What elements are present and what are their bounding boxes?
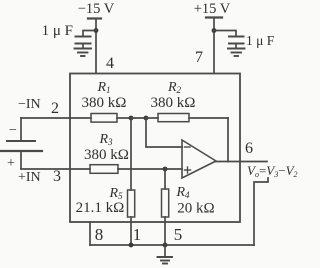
ground (main) (158, 257, 173, 264)
wire rail up to output return (254, 178, 268, 245)
wire -IN down to battery (20, 118, 22, 141)
svg-text:−IN: −IN (18, 97, 41, 112)
wire feedback down to output (227, 118, 229, 162)
resistor R4 body (162, 189, 169, 217)
svg-text:6: 6 (245, 140, 253, 157)
resistor R3 body (90, 165, 118, 174)
resistor R2 lead left (146, 117, 158, 119)
IC box U1 outline (70, 74, 240, 223)
resistor R1 lead left (70, 117, 91, 119)
svg-text:1 μ F: 1 μ F (246, 33, 275, 48)
svg-text:2: 2 (51, 100, 59, 117)
node pin 1 on rail (129, 243, 134, 248)
node C (R3/R4 junction) (163, 167, 168, 172)
wire R2 to feedback corner (189, 117, 228, 119)
node B (inverting input node) (144, 116, 149, 121)
svg-text:Vo=V3−V2: Vo=V3−V2 (247, 163, 298, 179)
resistor R1 body (91, 114, 117, 123)
svg-text:5: 5 (174, 225, 183, 244)
svg-text:7: 7 (195, 49, 203, 66)
svg-text:8: 8 (95, 225, 104, 244)
svg-text:1: 1 (133, 225, 142, 244)
capacitor C2 (1 uF) plates (229, 37, 244, 44)
wire battery to +IN (20, 151, 22, 169)
wire C1 to ground (82, 44, 84, 49)
wire C1 lead (83, 31, 96, 37)
battery source plate (positive, bottom) (1, 150, 42, 152)
op-amp plus sign (185, 169, 191, 171)
wire -15V to pin 4 (95, 19, 97, 74)
resistor R2 body (158, 114, 189, 122)
ground (C1) (75, 49, 92, 57)
node: -15V / C1 junction (94, 28, 99, 33)
svg-text:+IN: +IN (18, 170, 41, 185)
svg-text:380 kΩ: 380 kΩ (151, 95, 196, 111)
ground (C2) (228, 49, 245, 57)
wire -IN input (pin 2) (21, 117, 70, 119)
wire +IN input (pin 3) (21, 168, 70, 170)
svg-text:20 kΩ: 20 kΩ (177, 201, 214, 217)
svg-text:R2: R2 (167, 80, 182, 95)
wire node A to node B (131, 117, 146, 119)
capacitor C1 (1 uF) plates (76, 37, 91, 44)
+15V supply terminal bar (206, 16, 222, 18)
svg-text:+15 V: +15 V (194, 1, 231, 17)
wire node A down to R5 (130, 118, 132, 190)
svg-text:1 μ F: 1 μ F (42, 23, 73, 39)
svg-text:R5: R5 (108, 186, 123, 201)
op-amp U1 triangle (182, 140, 216, 178)
op-amp minus sign (185, 146, 191, 148)
wire R5 to pin 1 (130, 217, 132, 245)
node: +15V / C2 junction (212, 28, 217, 33)
svg-text:380 kΩ: 380 kΩ (84, 147, 129, 163)
node pin 5 on rail (163, 243, 168, 248)
-15V supply terminal bar (88, 17, 101, 19)
svg-text:R3: R3 (98, 132, 113, 147)
svg-text:−15 V: −15 V (78, 1, 115, 17)
wire R3 to op-amp noninverting input (118, 168, 182, 170)
node A (R1/R5 junction) (129, 116, 134, 121)
svg-text:380 kΩ: 380 kΩ (82, 95, 127, 111)
wire C2 lead (214, 31, 236, 37)
wire C2 to ground (235, 44, 237, 49)
wire pin 8 down (89, 222, 91, 245)
svg-text:−: − (9, 123, 17, 138)
resistor R1 lead right (117, 117, 131, 119)
svg-text:R1: R1 (96, 80, 110, 95)
wire inverting input (node B to op-amp) (146, 118, 182, 147)
wire +15V to pin 7 (213, 18, 215, 74)
resistor R3 lead left (70, 168, 90, 170)
battery source plate (negative, top) (7, 140, 35, 142)
wire R4 to pin 5 (164, 217, 166, 245)
svg-text:21.1 kΩ: 21.1 kΩ (76, 200, 125, 216)
svg-text:R4: R4 (175, 185, 190, 200)
wire ground stub (164, 245, 166, 257)
wire node C down to R4 (164, 169, 166, 189)
resistor R5 body (128, 190, 135, 217)
svg-text:3: 3 (53, 168, 61, 185)
wire op-amp output (pin 6) (216, 161, 267, 163)
wire bottom common rail (90, 244, 254, 246)
svg-text:4: 4 (106, 55, 114, 72)
svg-text:+: + (7, 156, 15, 171)
